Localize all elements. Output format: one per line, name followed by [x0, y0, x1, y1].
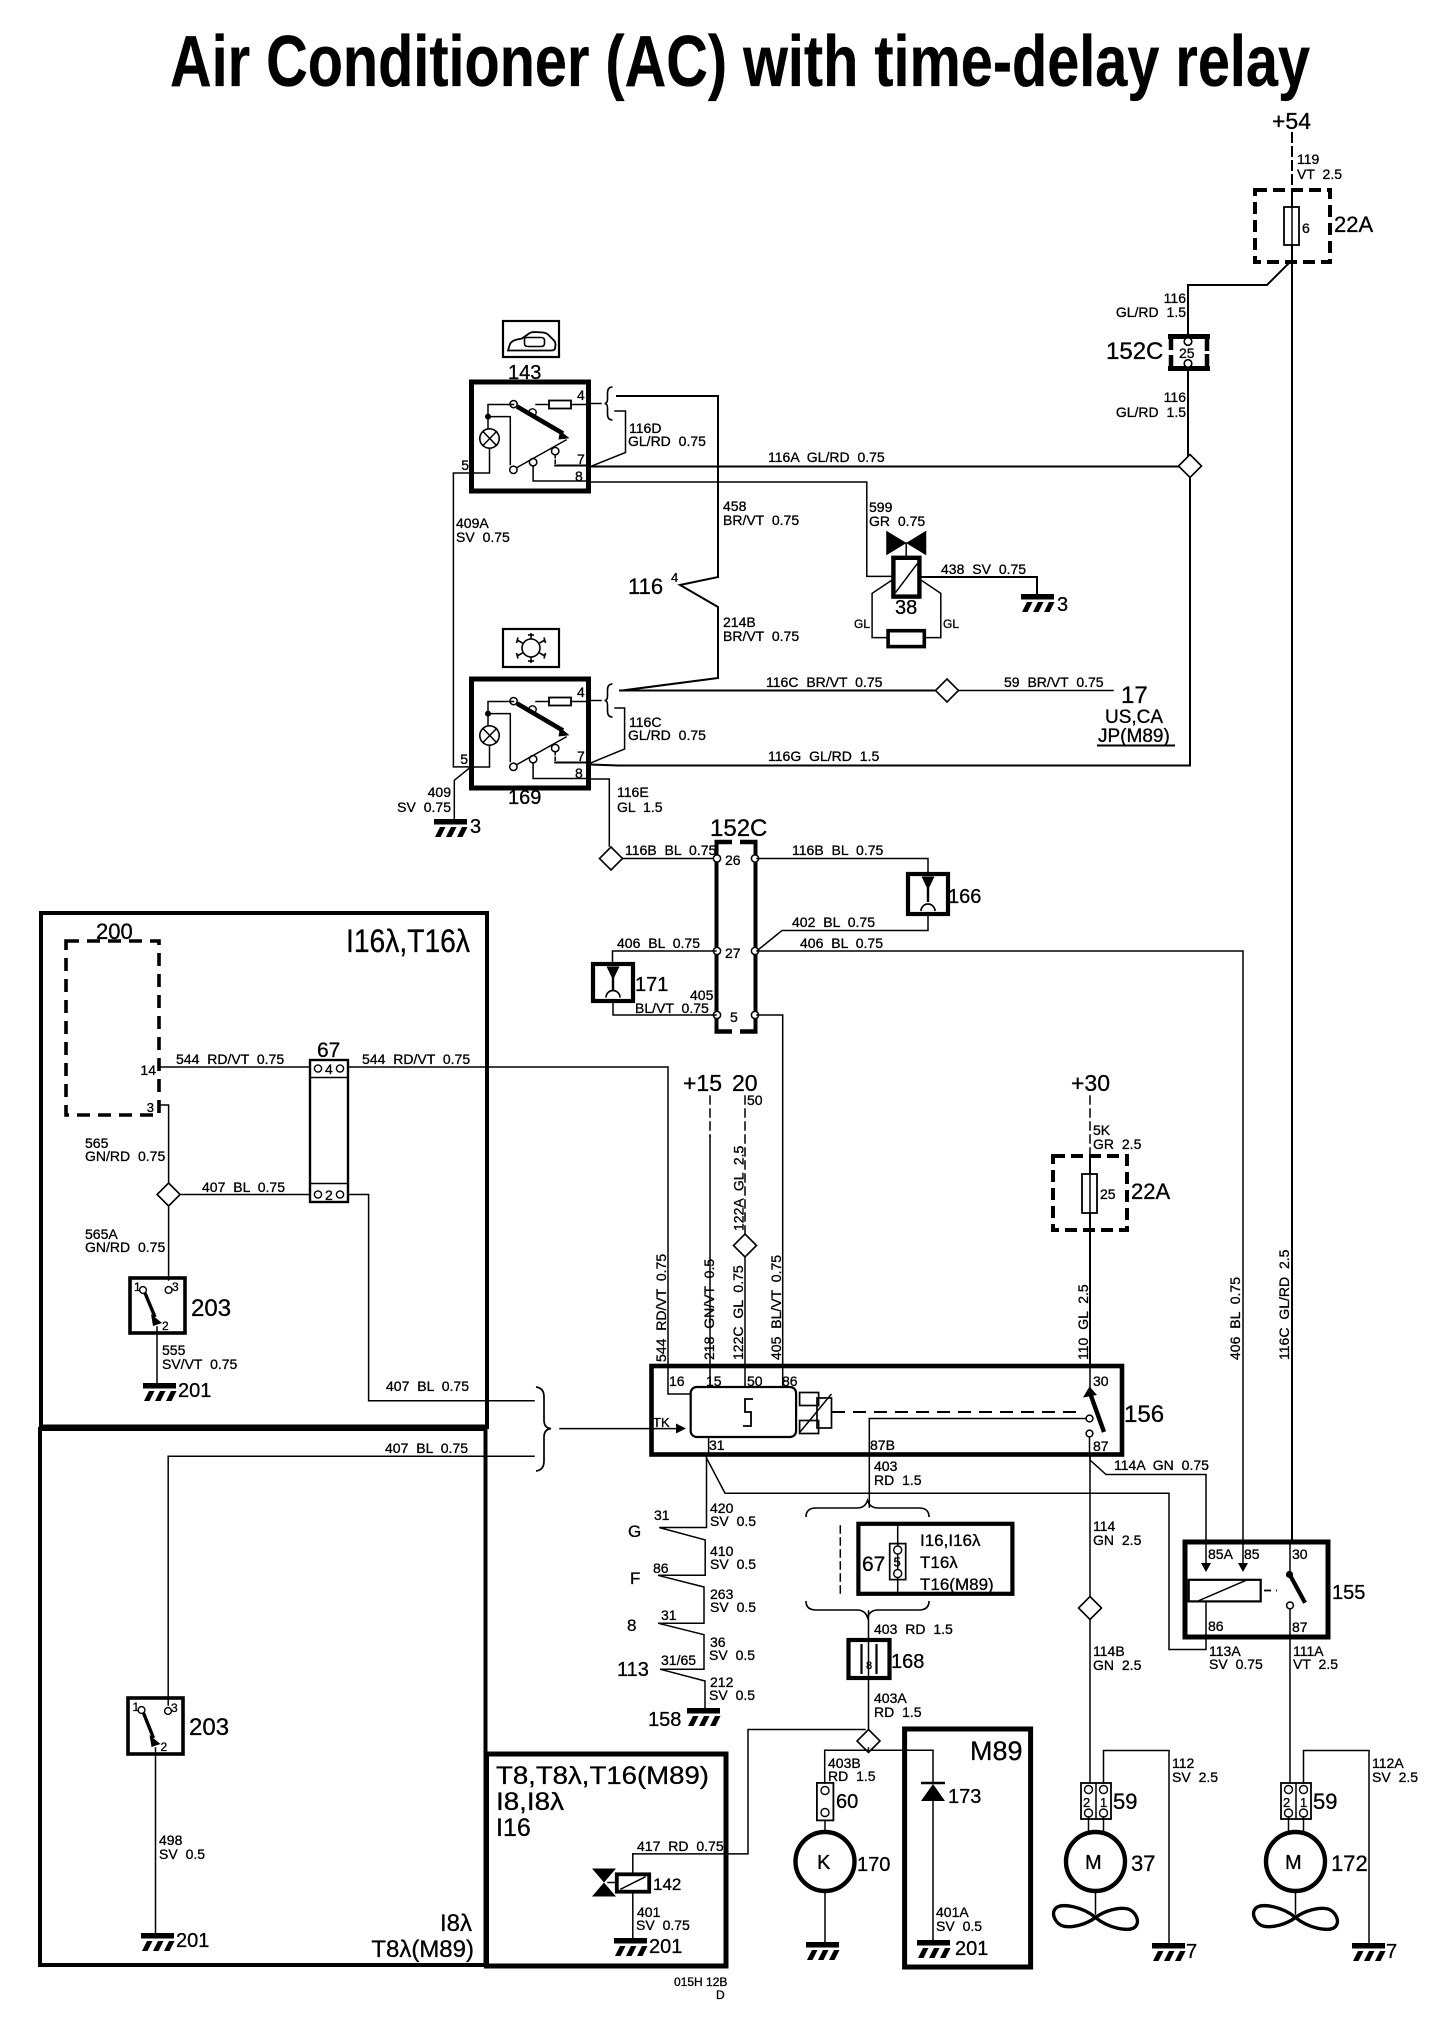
wire 403A RD 1.5 [868, 1678, 870, 1729]
svg-text:1: 1 [134, 1280, 141, 1294]
box M89 [905, 1729, 1031, 1967]
svg-text:VT 2.5: VT 2.5 [1297, 166, 1342, 182]
svg-text:114A GN 0.75: 114A GN 0.75 [1114, 1457, 1209, 1473]
svg-text:1: 1 [1100, 1795, 1107, 1810]
svg-text:116E: 116E [617, 784, 649, 800]
svg-text:31/65: 31/65 [661, 1652, 696, 1668]
node splice 114 [1079, 1597, 1102, 1620]
svg-text:200: 200 [96, 919, 133, 944]
svg-text:SV 0.75: SV 0.75 [456, 529, 510, 545]
svg-text:85: 85 [1244, 1546, 1260, 1562]
control unit 200 (dashed) [66, 941, 159, 1115]
svg-text:116: 116 [628, 574, 663, 599]
svg-text:T8λ(M89): T8λ(M89) [371, 1936, 474, 1963]
svg-text:+54: +54 [1272, 108, 1311, 134]
svg-text:JP(M89): JP(M89) [1098, 726, 1170, 747]
wire 114A GN 0.75 to relay 155 pin 85A [1090, 1455, 1206, 1542]
svg-text:SV 0.5: SV 0.5 [709, 1687, 755, 1703]
svg-text:59: 59 [1313, 1789, 1337, 1814]
compressor clutch K 170 [796, 1820, 891, 1942]
linkage element [800, 1393, 819, 1406]
node splice 116C [936, 679, 959, 702]
svg-text:Air Conditioner (AC) with time: Air Conditioner (AC) with time-delay rel… [170, 22, 1310, 102]
svg-text:116A GL/RD 0.75: 116A GL/RD 0.75 [768, 449, 885, 465]
svg-text:4: 4 [577, 387, 585, 403]
svg-text:201: 201 [178, 1380, 211, 1402]
svg-text:544 RD/VT 0.75: 544 RD/VT 0.75 [653, 1254, 669, 1362]
svg-text:203: 203 [191, 1295, 231, 1322]
svg-text:3: 3 [147, 1100, 154, 1115]
wire 112 SV 2.5 to ground 7 [1104, 1751, 1170, 1944]
svg-text:171: 171 [635, 974, 668, 996]
thermal switch 166 [908, 874, 981, 914]
resistor under valve 38 [872, 579, 893, 638]
wire 409 SV 0.75 to ground 3 [454, 768, 470, 820]
svg-text:I16,I16λ: I16,I16λ [920, 1531, 981, 1550]
svg-text:2: 2 [161, 1740, 168, 1754]
svg-text:7: 7 [1186, 1941, 1197, 1963]
wire 112A SV 2.5 to ground 7 [1304, 1751, 1370, 1944]
svg-text:14: 14 [140, 1062, 156, 1078]
svg-text:544 RD/VT 0.75: 544 RD/VT 0.75 [176, 1051, 284, 1067]
wire 599 GR 0.75 from 143 pin8 [589, 482, 894, 576]
svg-text:1: 1 [133, 1700, 140, 1714]
svg-text:I8λ: I8λ [440, 1910, 472, 1937]
wire 116C hook from brace to pin7 node [591, 708, 625, 763]
svg-text:2: 2 [1083, 1795, 1090, 1810]
relay 155 [1185, 1542, 1328, 1637]
svg-text:59 BR/VT 0.75: 59 BR/VT 0.75 [1004, 674, 1104, 690]
svg-text:SV 2.5: SV 2.5 [1372, 1769, 1418, 1785]
node splice 565 [157, 1183, 180, 1206]
svg-text:US,CA: US,CA [1105, 707, 1163, 728]
svg-text:402 BL 0.75: 402 BL 0.75 [792, 914, 875, 930]
box T8 [487, 1754, 727, 1966]
svg-text:7: 7 [577, 748, 585, 764]
svg-text:GN 2.5: GN 2.5 [1093, 1532, 1142, 1548]
svg-text:GL/RD 0.75: GL/RD 0.75 [628, 433, 706, 449]
fan motor 37 [1054, 1817, 1156, 1929]
svg-text:168: 168 [891, 1651, 924, 1673]
wire 122C GL 0.75 [744, 1257, 746, 1366]
svg-text:RD 1.5: RD 1.5 [828, 1768, 876, 1784]
big box I8 lower left [40, 1429, 486, 1965]
ground 201 (upper 203) [143, 1383, 177, 1401]
ground 3 (valve 38) [1021, 594, 1055, 612]
svg-text:156: 156 [1124, 1401, 1164, 1428]
wire 405 BL/VT right then down to relay 86 [757, 1015, 783, 1366]
connector 60 [817, 1783, 858, 1821]
fuse 22A (terminal 25) [1053, 1156, 1170, 1230]
svg-text:407 BL 0.75: 407 BL 0.75 [386, 1378, 469, 1394]
relay 156 (time-delay relay) [652, 1366, 1123, 1455]
svg-text:158: 158 [648, 1709, 681, 1731]
svg-text:GN/RD 0.75: GN/RD 0.75 [85, 1148, 165, 1164]
svg-text:SV 0.5: SV 0.5 [710, 1556, 756, 1572]
svg-text:I16λ,T16λ: I16λ,T16λ [346, 923, 470, 959]
svg-text:GR 2.5: GR 2.5 [1093, 1136, 1142, 1152]
svg-text:26: 26 [725, 852, 741, 868]
wire 59 BR/VT 0.75 [959, 690, 1114, 692]
wire 31 chain from pin 31 [658, 1455, 707, 1708]
svg-text:GL/RD 0.75: GL/RD 0.75 [628, 727, 706, 743]
svg-text:SV/VT 0.75: SV/VT 0.75 [162, 1356, 238, 1372]
svg-text:27: 27 [725, 945, 741, 961]
svg-text:4: 4 [671, 570, 678, 585]
switch 203 (upper, pressure switch) [130, 1278, 231, 1333]
wire 458 upper run from brace to 718 [617, 396, 718, 577]
connector 59 (motor 37) [1081, 1783, 1137, 1819]
svg-text:3: 3 [172, 1280, 179, 1294]
svg-text:201: 201 [176, 1930, 209, 1952]
valve 38 (AC compressor solenoid) [854, 532, 959, 647]
svg-text:438 SV 0.75: 438 SV 0.75 [941, 561, 1026, 577]
svg-text:86: 86 [1208, 1618, 1224, 1634]
switch 169 (AC switch) [460, 629, 588, 809]
svg-text:8: 8 [866, 1660, 872, 1672]
svg-text:406 BL 0.75: 406 BL 0.75 [1227, 1277, 1243, 1360]
svg-text:172: 172 [1331, 1851, 1368, 1876]
wire 403B RD 1.5 to connector 60 [825, 1748, 869, 1783]
svg-text:G: G [628, 1522, 641, 1541]
svg-text:+30: +30 [1071, 1070, 1110, 1096]
svg-text:116: 116 [1164, 389, 1187, 405]
svg-text:116C BR/VT 0.75: 116C BR/VT 0.75 [766, 674, 883, 690]
svg-text:60: 60 [836, 1791, 858, 1813]
svg-text:116B BL 0.75: 116B BL 0.75 [625, 842, 717, 858]
svg-text:GL/RD 1.5: GL/RD 1.5 [1116, 304, 1186, 320]
svg-text:31: 31 [661, 1607, 677, 1623]
svg-text:17: 17 [1121, 682, 1148, 709]
svg-text:GR 0.75: GR 0.75 [869, 513, 925, 529]
wire 114 GN 2.5 down to splice [1089, 1455, 1091, 1596]
svg-text:16: 16 [669, 1373, 685, 1389]
brace 169 pin4 [605, 684, 613, 717]
node splice 116B [600, 847, 623, 870]
wire 565 GN/RD 0.75 from 200 pin 3 [159, 1105, 169, 1183]
svg-text:M: M [1085, 1852, 1102, 1874]
wire 116D hook from brace to pin7 node [591, 411, 626, 467]
svg-text:170: 170 [857, 1854, 890, 1876]
svg-text:BR/VT 0.75: BR/VT 0.75 [723, 628, 799, 644]
svg-text:I16: I16 [496, 1814, 531, 1842]
wire TK lead to relay 156 [560, 1428, 676, 1430]
svg-text:6: 6 [1302, 220, 1310, 236]
wire pin4 stub 143 [589, 403, 602, 405]
wire 116B BL 0.75 left [623, 858, 717, 860]
svg-text:409: 409 [428, 784, 452, 800]
svg-text:3: 3 [171, 1701, 178, 1715]
wire 405 BL/VT 0.75 from 171 to pin 5 [613, 1001, 716, 1015]
svg-text:T16(M89): T16(M89) [920, 1575, 994, 1594]
node 116 callout with kink [622, 577, 718, 691]
svg-text:113: 113 [617, 1659, 649, 1681]
valve 142 [592, 1838, 724, 1938]
svg-text:152C: 152C [710, 815, 767, 842]
brace 143 pin4 [605, 387, 613, 420]
svg-text:38: 38 [895, 597, 917, 619]
resistor inside 143 [549, 401, 571, 409]
svg-text:116B BL 0.75: 116B BL 0.75 [792, 842, 884, 858]
svg-text:SV 0.5: SV 0.5 [710, 1513, 756, 1529]
wire to diode 173 [872, 1750, 933, 1782]
svg-text:25: 25 [1100, 1186, 1116, 1202]
svg-text:5: 5 [894, 1555, 901, 1570]
wire 116G GL/RD 1.5 [590, 765, 1190, 766]
wire 438 SV 0.75 to ground [920, 577, 1038, 595]
svg-text:31: 31 [654, 1507, 670, 1523]
svg-text:30: 30 [1292, 1546, 1308, 1562]
wire 409A from 143 pin5 [453, 473, 471, 767]
svg-text:+15: +15 [683, 1070, 722, 1096]
svg-text:SV 0.75: SV 0.75 [636, 1917, 690, 1933]
wire 402 BL 0.75 from 166 to pin 27 [758, 914, 928, 950]
svg-text:407 BL 0.75: 407 BL 0.75 [385, 1440, 468, 1456]
connector 152C pin 25 [1106, 334, 1210, 371]
svg-text:5: 5 [461, 457, 469, 473]
svg-text:1: 1 [1300, 1795, 1307, 1810]
ground 201 (M89) [917, 1940, 951, 1958]
svg-text:D: D [716, 1988, 725, 2002]
svg-text:87B: 87B [870, 1437, 895, 1453]
fuse 168 [849, 1640, 925, 1678]
thermal switch 171 [593, 964, 668, 1001]
wire 407 BL 0.75 splice to 67 pin 2 [180, 1194, 310, 1196]
wire 114B GN 2.5 to motor 37 [1089, 1620, 1091, 1783]
wire 407 BL 0.75 from 67 pin 2 to brace [348, 1195, 534, 1401]
fuse 22A (terminal 6) [1255, 190, 1373, 262]
svg-text:RD 1.5: RD 1.5 [874, 1472, 922, 1488]
wire 403 RD 1.5 from pin 87B [868, 1455, 870, 1507]
svg-text:GL: GL [854, 617, 870, 631]
svg-text:T16λ: T16λ [920, 1553, 958, 1572]
svg-text:25: 25 [1179, 345, 1195, 361]
svg-text:M89: M89 [970, 1736, 1023, 1766]
switch blade 143 [510, 401, 517, 408]
svg-text:3: 3 [1057, 594, 1068, 616]
contact 155 [1289, 1544, 1291, 1572]
ground 201 (lower 203) [141, 1933, 175, 1951]
svg-text:110 GL 2.5: 110 GL 2.5 [1075, 1284, 1091, 1360]
svg-text:405 BL/VT 0.75: 405 BL/VT 0.75 [768, 1255, 784, 1360]
wire 116 GL/RD 1.5 below 152C [1187, 371, 1189, 455]
svg-text:86: 86 [653, 1560, 669, 1576]
svg-text:87: 87 [1093, 1438, 1109, 1454]
svg-text:F: F [630, 1569, 640, 1588]
wire 544 RD/VT 0.75 from 67 pin 4 right [348, 1067, 668, 1366]
svg-text:2: 2 [1283, 1795, 1290, 1810]
wire 116C BR/VT 0.75 [620, 690, 936, 692]
svg-text:8: 8 [575, 765, 583, 781]
connector 152C (pins 26,27,5) [710, 815, 767, 1033]
ground 201 (T8) [614, 1938, 648, 1956]
svg-text:3: 3 [470, 816, 481, 838]
svg-text:5: 5 [730, 1009, 738, 1025]
svg-text:22A: 22A [1334, 212, 1373, 237]
svg-text:8: 8 [575, 468, 583, 484]
svg-text:5: 5 [460, 751, 468, 767]
svg-text:67: 67 [317, 1039, 340, 1062]
wire 406 BL 0.75 left to 171 [613, 951, 717, 963]
wire 111A VT 2.5 to motor 172 [1289, 1637, 1291, 1783]
ground 3 (switches) [434, 819, 468, 837]
svg-text:116G GL/RD 1.5: 116G GL/RD 1.5 [768, 748, 879, 764]
svg-text:403 RD 1.5: 403 RD 1.5 [874, 1621, 953, 1637]
wire 116G riser from splice [1189, 478, 1191, 766]
svg-text:BR/VT 0.75: BR/VT 0.75 [723, 512, 799, 528]
svg-text:TK: TK [653, 1415, 670, 1430]
wire 113A SV 0.75 long run to relay 155 pin 86 [707, 1458, 1207, 1650]
svg-text:218 GN/VT 0.5: 218 GN/VT 0.5 [701, 1259, 717, 1360]
svg-text:22A: 22A [1131, 1179, 1170, 1204]
wire 116A GL/RD 0.75 [590, 466, 1179, 468]
svg-text:BL/VT 0.75: BL/VT 0.75 [635, 1000, 709, 1016]
svg-text:87: 87 [1292, 1619, 1308, 1635]
svg-text:SV 0.75: SV 0.75 [397, 799, 451, 815]
wire 116C GL/RD 2.5 main vertical to relay 155 [1291, 262, 1293, 1542]
svg-text:8: 8 [627, 1616, 636, 1635]
wire 116 GL/RD 1.5 branch to 152C [1188, 263, 1289, 334]
wire 218 GN/VT 0.5 [709, 1136, 711, 1366]
diode 173 [921, 1783, 981, 1940]
wire +54 dashed lead [1291, 133, 1293, 190]
node splice 403 [857, 1730, 880, 1753]
svg-text:173: 173 [948, 1786, 981, 1808]
svg-text:201: 201 [955, 1938, 988, 1960]
svg-text:015H 12B: 015H 12B [674, 1975, 727, 1989]
svg-text:SV 0.5: SV 0.5 [159, 1846, 205, 1862]
svg-text:59: 59 [1113, 1789, 1137, 1814]
wire 498 SV 0.5 to ground [155, 1748, 157, 1933]
svg-text:203: 203 [189, 1714, 229, 1741]
svg-text:201: 201 [649, 1936, 682, 1958]
svg-text:406 BL 0.75: 406 BL 0.75 [800, 935, 883, 951]
svg-text:SV 0.75: SV 0.75 [1209, 1656, 1263, 1672]
svg-text:2: 2 [325, 1187, 333, 1203]
svg-text:GN 2.5: GN 2.5 [1093, 1657, 1142, 1673]
svg-text:K: K [817, 1852, 831, 1874]
coil 155 [1205, 1544, 1207, 1565]
wire 406 BL 0.75 right long to relay 155 pin 85 [757, 951, 1243, 1542]
svg-text:407 BL 0.75: 407 BL 0.75 [202, 1179, 285, 1195]
svg-text:37: 37 [1131, 1851, 1155, 1876]
svg-text:50: 50 [747, 1092, 763, 1108]
svg-text:122C GL 0.75: 122C GL 0.75 [730, 1265, 746, 1360]
node splice 116 [1179, 455, 1202, 478]
wire 555 SV/VT 0.75 to ground 201 [156, 1327, 158, 1383]
connector 59 (motor 172) [1281, 1783, 1337, 1819]
svg-text:122A GL 2.5: 122A GL 2.5 [731, 1145, 747, 1231]
svg-text:SV 2.5: SV 2.5 [1172, 1769, 1218, 1785]
svg-text:67: 67 [862, 1553, 885, 1576]
connector 67 [310, 1039, 348, 1203]
variant box 67 (middle) [806, 1501, 1012, 1618]
svg-text:4: 4 [577, 684, 585, 700]
svg-text:GL/RD 1.5: GL/RD 1.5 [1116, 404, 1186, 420]
switch 143 (sunroof switch) [461, 321, 588, 491]
svg-text:GN/RD 0.75: GN/RD 0.75 [85, 1239, 165, 1255]
svg-text:7: 7 [1386, 1941, 1397, 1963]
svg-text:4: 4 [325, 1061, 333, 1077]
svg-text:2: 2 [162, 1319, 169, 1333]
big box I16,T16 upper left [41, 913, 487, 1427]
wire 565A GN/RD 0.75 [168, 1206, 170, 1280]
svg-text:166: 166 [948, 886, 981, 908]
svg-text:116C GL/RD 2.5: 116C GL/RD 2.5 [1276, 1249, 1292, 1360]
svg-text:7: 7 [577, 451, 585, 467]
svg-text:119: 119 [1297, 151, 1320, 167]
shared thick boundary of left boxes [41, 1425, 487, 1430]
wire 116E GL 1.5 from 169 pin8 [589, 779, 610, 846]
relay 156 contact [1089, 1368, 1091, 1391]
svg-text:30: 30 [1093, 1373, 1109, 1389]
lamp inside 169 [480, 726, 499, 745]
svg-text:SV 0.5: SV 0.5 [709, 1647, 755, 1663]
node splice 122 [734, 1234, 757, 1257]
svg-text:VT 2.5: VT 2.5 [1293, 1656, 1338, 1672]
wire 403 RD 1.5 below variant box [868, 1611, 870, 1640]
svg-text:GL 1.5: GL 1.5 [617, 799, 663, 815]
wire 407 BL 0.75 lower box [168, 1455, 534, 1457]
wire 110 GL 2.5 [1089, 1230, 1091, 1366]
timer unit inside 156 [668, 1368, 691, 1394]
svg-text:T8,T8λ,T16(M89): T8,T8λ,T16(M89) [496, 1762, 709, 1790]
svg-text:SV 0.5: SV 0.5 [710, 1599, 756, 1615]
ground 158 [687, 1708, 721, 1726]
switch 203 (lower) [128, 1698, 229, 1754]
svg-text:I8,I8λ: I8,I8λ [496, 1788, 565, 1816]
svg-text:155: 155 [1332, 1582, 1365, 1604]
svg-text:RD 1.5: RD 1.5 [874, 1704, 922, 1720]
node +54 supply [1272, 108, 1342, 190]
wire 417 branch to T8 box [633, 1730, 865, 1854]
resistor inside 169 [549, 698, 571, 706]
wire pin4 stub 169 [589, 700, 602, 702]
svg-text:85A: 85A [1208, 1546, 1234, 1562]
svg-text:544 RD/VT 0.75: 544 RD/VT 0.75 [362, 1051, 470, 1067]
wire 544 RD/VT 0.75 pin14 to 67 [159, 1066, 310, 1068]
fan motor 172 [1254, 1817, 1368, 1929]
svg-text:417 RD 0.75: 417 RD 0.75 [637, 1838, 724, 1854]
svg-text:406 BL 0.75: 406 BL 0.75 [617, 935, 700, 951]
ground (K 170) [806, 1942, 840, 1960]
svg-text:31: 31 [709, 1437, 725, 1453]
switch blade 169 [510, 698, 517, 705]
brace joining 407 wires [536, 1387, 551, 1471]
svg-text:152C: 152C [1106, 338, 1163, 365]
wire 116B BL 0.75 right to 166 [757, 859, 928, 874]
svg-text:M: M [1285, 1852, 1302, 1874]
svg-text:SV 0.5: SV 0.5 [936, 1918, 982, 1934]
svg-text:GL: GL [943, 617, 959, 631]
svg-text:142: 142 [653, 1875, 681, 1894]
lamp inside 143 [480, 429, 499, 448]
